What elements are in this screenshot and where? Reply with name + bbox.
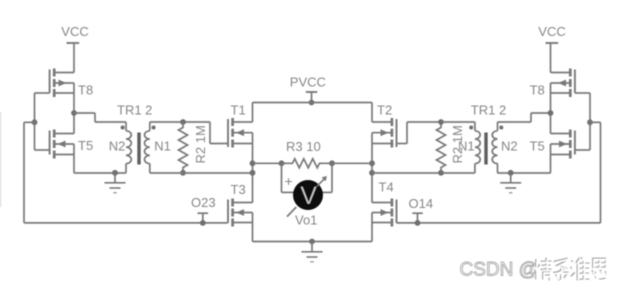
svg-text:TR1 2: TR1 2 xyxy=(117,102,152,117)
transistor T3 (NMOS) xyxy=(228,182,253,242)
resistor R3 10 xyxy=(282,139,333,168)
node B (T2 source / R3 right feed) xyxy=(369,160,375,166)
svg-text:CSDN @: CSDN @ xyxy=(460,260,538,281)
svg-text:T2: T2 xyxy=(377,102,392,117)
svg-text:N1: N1 xyxy=(458,139,475,154)
node primary ground tap right xyxy=(508,170,514,176)
svg-text:T5: T5 xyxy=(78,138,93,153)
node R2 top left xyxy=(180,119,186,125)
wire secondary bottom rail right xyxy=(372,172,475,174)
svg-text:T3: T3 xyxy=(231,182,246,197)
node R3 left xyxy=(279,160,285,166)
wire node B to R3 xyxy=(332,162,372,164)
svg-text:O23: O23 xyxy=(191,195,216,210)
voltmeter Vo1 xyxy=(282,163,333,227)
node B secondary return xyxy=(369,170,375,176)
svg-text:T1: T1 xyxy=(231,102,246,117)
transistor T4 (NMOS, mirrored) xyxy=(372,180,397,242)
wire node A to R3 xyxy=(253,162,282,164)
node T8/T5 source-drain junction left xyxy=(71,110,77,116)
node gate-drive left junction xyxy=(32,119,38,125)
transistor T8 (right, PMOS mirrored) xyxy=(530,69,590,123)
transistor T2 (NMOS, mirrored) xyxy=(372,102,441,202)
border fragment left edge xyxy=(0,112,2,207)
node center ground junction xyxy=(309,239,315,245)
terminal O14 xyxy=(409,196,434,226)
svg-text:+: + xyxy=(285,173,293,189)
svg-text:T5: T5 xyxy=(530,139,545,154)
resistor R2 1M (left) xyxy=(179,122,209,173)
transistor T1 (NMOS) xyxy=(228,102,253,202)
wire primary bottom rail xyxy=(74,172,126,174)
power VCC left xyxy=(61,24,88,73)
svg-text:R2 1M: R2 1M xyxy=(193,125,208,163)
svg-text:O14: O14 xyxy=(409,196,434,211)
node primary ground tap xyxy=(112,170,118,176)
wire secondary top rail right xyxy=(441,121,475,123)
transistor T8 (left, PMOS) xyxy=(35,69,94,123)
svg-text:V: V xyxy=(300,182,317,210)
svg-text:T8: T8 xyxy=(530,82,545,97)
wire to primary N2 top xyxy=(74,113,126,122)
node gate-drive right junction xyxy=(587,119,593,125)
svg-text:T4: T4 xyxy=(379,180,394,195)
svg-text:N2: N2 xyxy=(109,139,126,154)
transformer TR1 2 (left) xyxy=(109,102,171,173)
wire left gate rail down xyxy=(24,122,228,223)
svg-text:T8: T8 xyxy=(78,82,93,97)
node R2 bottom right xyxy=(438,170,444,176)
svg-text:N2: N2 xyxy=(501,139,518,154)
watermark CSDN @qingxihuaisi xyxy=(460,258,609,281)
node T8/T5 source-drain junction right xyxy=(548,110,554,116)
svg-text:PVCC: PVCC xyxy=(290,75,326,90)
node PVCC junction xyxy=(309,100,315,106)
svg-text:N1: N1 xyxy=(154,139,171,154)
transformer TR1 2 (right) xyxy=(458,102,518,173)
ground (left) xyxy=(105,173,126,193)
svg-text:Vo1: Vo1 xyxy=(295,213,317,228)
node R2 bottom left xyxy=(180,170,186,176)
svg-text:VCC: VCC xyxy=(61,24,88,39)
wire H-bridge bottom rail xyxy=(253,241,373,243)
resistor R2 1M (right) xyxy=(437,122,466,173)
wire primary bottom rail right xyxy=(498,172,551,174)
wire to primary N2 top right xyxy=(498,113,551,122)
ground (right) xyxy=(500,173,521,193)
svg-text:TR1 2: TR1 2 xyxy=(471,102,506,117)
svg-text:R3 10: R3 10 xyxy=(286,139,321,154)
power VCC right xyxy=(538,24,565,73)
wire secondary top rail left xyxy=(150,121,210,123)
wire secondary bottom rail left xyxy=(150,172,253,174)
node R3 right xyxy=(329,160,335,166)
node R2 top right xyxy=(438,119,444,125)
wire H-bridge top rail xyxy=(253,102,373,104)
svg-text:VCC: VCC xyxy=(538,24,565,39)
wire right gate rail xyxy=(397,222,601,224)
transistor T5 (right, NMOS mirrored) xyxy=(530,113,591,173)
ground (center) xyxy=(302,242,323,262)
terminal O23 xyxy=(191,195,216,226)
wire gate jog to T1 xyxy=(210,122,228,144)
wire right gate rail down xyxy=(590,122,601,223)
node A (T1 source / R3 left feed) xyxy=(250,160,256,166)
transistor T5 (left, NMOS) xyxy=(35,113,94,173)
power PVCC xyxy=(290,75,326,103)
node A secondary return xyxy=(250,170,256,176)
